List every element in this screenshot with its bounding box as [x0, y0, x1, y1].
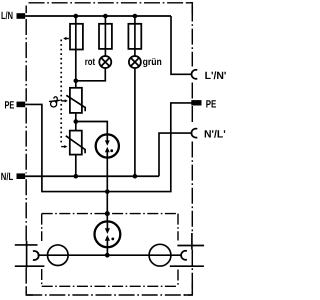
node: bus-rot junction	[103, 14, 108, 19]
external stub right lower	[170, 265, 204, 267]
node: bus-fuse junction	[74, 14, 79, 19]
wire: base through-path	[38, 254, 182, 256]
mechanical linkage (dotted line)	[60, 40, 62, 146]
wire: spark gap F2 down to base	[106, 158, 108, 222]
arrow: theta to varistor1	[61, 99, 68, 102]
enclosure outer border (dash-dot)	[26, 3, 193, 295]
external connection bar left	[26, 241, 28, 268]
spark gap F2 (upper)	[96, 134, 119, 157]
disconnector contact (gruen branch rectangle)	[128, 24, 141, 49]
svg-text:N/L: N/L	[1, 171, 14, 183]
wire: gruen branch	[134, 16, 136, 56]
wire: rot branch	[104, 16, 106, 56]
terminal clamp N'/L'	[191, 129, 197, 138]
external stub left upper	[15, 244, 38, 246]
external stub right upper	[177, 245, 204, 247]
terminal N/L (black block)	[17, 173, 26, 179]
wire: lamp rot to fuse node	[76, 68, 106, 81]
wire: spark gap F3 to through-wire	[106, 247, 108, 255]
wire: PE path	[25, 103, 192, 192]
wire: N/L bus	[25, 175, 159, 177]
disconnector (fuse) F1	[70, 24, 83, 50]
svg-text:PE: PE	[206, 99, 217, 111]
wire: varistor1 to node2	[75, 113, 77, 131]
svg-text:PE: PE	[5, 99, 15, 111]
svg-text:N'/L': N'/L'	[204, 128, 226, 140]
terminal clamp L'/N'	[191, 70, 197, 79]
wire: N/L bus to N'/L' output	[159, 133, 192, 176]
wire: node2 to spark gap F2	[76, 122, 108, 135]
node: N/L-gruen junction	[133, 174, 138, 179]
wire: fuse branch vertical	[75, 16, 77, 88]
base-unit compartment border (dash-dot)	[42, 214, 178, 287]
terminal PE right (black block)	[191, 100, 201, 105]
terminal clamp base left	[33, 251, 39, 260]
lamp rot (indicator)	[99, 56, 111, 68]
svg-text:rot: rot	[85, 57, 96, 68]
varistor RV2	[66, 131, 85, 155]
node: PE-sparkgap junction	[105, 189, 110, 194]
node: module-base plug contact	[105, 211, 110, 216]
arrow: disconnector trip arrow	[63, 37, 69, 40]
node: varistor1/varistor2/sparkgap junction	[74, 119, 79, 124]
svg-text:L/N: L/N	[1, 10, 13, 22]
decoupling element right (circle)	[149, 244, 171, 266]
arrow: linkage to varistor2	[61, 145, 67, 148]
external stub left lower	[15, 265, 45, 267]
terminal clamp base right	[181, 251, 187, 260]
wire: varistor2 to N/L bus	[75, 155, 77, 177]
node: N/L-varistor2 junction	[74, 174, 79, 179]
disconnector contact (rot branch rectangle)	[99, 24, 112, 49]
node: fuse/varistor1/lamp junction	[74, 79, 79, 84]
svg-text:grün: grün	[143, 57, 162, 68]
spark gap F3 (base unit)	[95, 221, 121, 247]
node: base through-wire junction	[105, 253, 110, 258]
node: bus-gruen junction	[133, 14, 138, 19]
varistor RV1	[66, 88, 85, 113]
terminal PE left (black block)	[17, 102, 26, 108]
label theta	[49, 97, 60, 107]
svg-text:L'/N': L'/N'	[205, 70, 227, 82]
wire: lamp gruen down to N/L bus	[134, 68, 136, 176]
external connection bar right	[191, 233, 193, 250]
decoupling element left (circle)	[48, 245, 69, 266]
terminal L/N (black block)	[17, 13, 26, 19]
wire: L/N bus	[25, 15, 171, 17]
wire: bus to L'/N' output	[171, 16, 192, 74]
lamp gruen (indicator)	[129, 56, 141, 68]
